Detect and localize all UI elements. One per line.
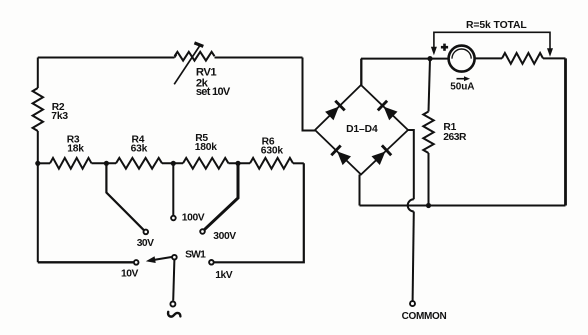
svg-text:630k: 630k bbox=[261, 146, 284, 157]
svg-text:300V: 300V bbox=[213, 231, 236, 242]
svg-text:1kV: 1kV bbox=[215, 270, 232, 281]
svg-text:263R: 263R bbox=[443, 132, 467, 143]
svg-text:set 10V: set 10V bbox=[196, 86, 231, 98]
svg-text:R=5k TOTAL: R=5k TOTAL bbox=[466, 20, 527, 31]
svg-text:10V: 10V bbox=[121, 269, 138, 280]
svg-text:COMMON: COMMON bbox=[402, 311, 447, 322]
svg-text:100V: 100V bbox=[182, 213, 205, 224]
svg-text:18k: 18k bbox=[67, 144, 84, 155]
svg-text:50uA: 50uA bbox=[450, 82, 474, 93]
svg-text:30V: 30V bbox=[137, 238, 154, 249]
svg-text:180k: 180k bbox=[195, 142, 218, 153]
svg-text:SW1: SW1 bbox=[185, 249, 206, 260]
svg-text:D1–D4: D1–D4 bbox=[346, 124, 378, 135]
svg-text:7k3: 7k3 bbox=[51, 111, 68, 122]
svg-text:63k: 63k bbox=[131, 143, 148, 154]
